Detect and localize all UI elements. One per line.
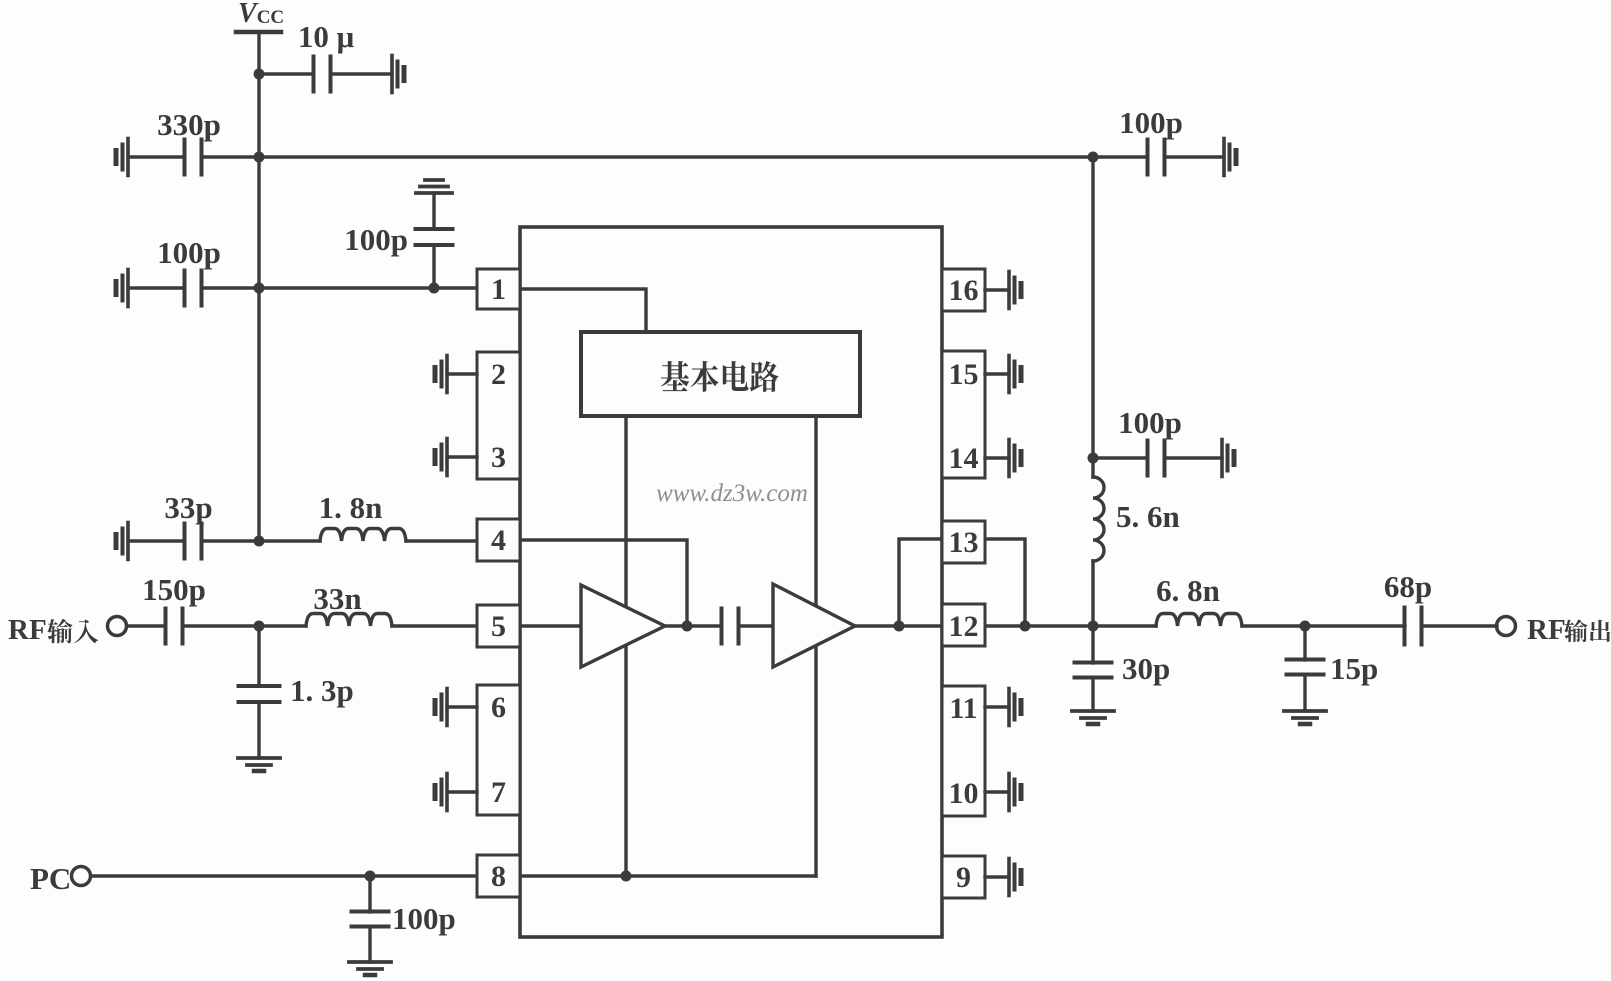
svg-text:8: 8 xyxy=(491,860,506,893)
svg-text:10 μ: 10 μ xyxy=(298,19,355,54)
svg-text:1: 1 xyxy=(491,273,506,306)
pin 4 box xyxy=(477,519,520,561)
svg-text:9: 9 xyxy=(956,861,971,894)
wire internal bus A xyxy=(624,416,627,876)
inductor L3 5.6n xyxy=(1093,477,1104,561)
wire ground to C3 xyxy=(128,286,183,289)
pin 13 box xyxy=(942,521,985,563)
power VCC terminal bar xyxy=(236,30,281,35)
svg-text:16: 16 xyxy=(949,274,979,307)
svg-text:1. 8n: 1. 8n xyxy=(319,490,383,525)
node 100p-VCC junction xyxy=(254,283,265,294)
wire C11 to ground xyxy=(1091,678,1094,711)
node pin13 strap junction xyxy=(1020,621,1031,632)
wire PC to pin 8 xyxy=(91,874,477,877)
svg-text:12: 12 xyxy=(949,610,979,643)
svg-text:15p: 15p xyxy=(1330,651,1378,686)
pin 9 box xyxy=(942,856,985,898)
svg-text:7: 7 xyxy=(491,776,506,809)
svg-text:100p: 100p xyxy=(1119,105,1183,140)
wire A1 to C9 xyxy=(665,624,721,627)
wire pin 4 internal xyxy=(520,540,687,626)
wire L1 to pin 4 xyxy=(406,539,477,542)
pin 8 box xyxy=(477,855,520,897)
capacitor C12 68p plates xyxy=(1403,608,1407,645)
ground at pin 7 xyxy=(447,790,477,793)
node 330p-VCC junction xyxy=(254,152,265,163)
node 100p-5.6n junction xyxy=(1088,453,1099,464)
ground at pin 14 xyxy=(985,456,1009,459)
wire terminal to C6 xyxy=(127,624,165,627)
wire pin 12 output xyxy=(985,624,1156,627)
terminal PC circle xyxy=(72,867,91,886)
capacitor C8 100p plates xyxy=(352,910,389,914)
svg-text:2: 2 xyxy=(491,358,506,391)
capacitor C14 100p plates xyxy=(1146,140,1150,175)
svg-text:6: 6 xyxy=(491,691,506,724)
wire pin 13 strap xyxy=(985,539,1025,626)
svg-text:RF: RF xyxy=(1527,614,1566,646)
node top net right junction xyxy=(1088,152,1099,163)
wire VCC vertical rail xyxy=(257,32,260,541)
svg-text:100p: 100p xyxy=(344,222,408,257)
ground at pin 9 xyxy=(985,875,1009,878)
node pin8 bus junction xyxy=(621,871,632,882)
svg-text:100p: 100p xyxy=(1118,405,1182,440)
capacitor C4 100p plates xyxy=(416,227,453,231)
svg-text:150p: 150p xyxy=(142,572,206,607)
wire pin 13 internal xyxy=(899,539,942,626)
ground at C1 xyxy=(390,56,394,93)
wire C8 to ground xyxy=(368,927,371,962)
ground at C10 xyxy=(1220,440,1224,477)
ground at pin 15 xyxy=(985,372,1009,375)
svg-text:3: 3 xyxy=(491,441,506,474)
wire L3 to output net xyxy=(1091,561,1094,626)
ground at pin 3 xyxy=(447,455,477,458)
svg-text:5. 6n: 5. 6n xyxy=(1116,499,1180,534)
svg-text:14: 14 xyxy=(949,442,979,475)
node pin1 branch junction xyxy=(429,283,440,294)
label 基本电路 text xyxy=(661,361,689,391)
ground at C14 xyxy=(1222,139,1226,176)
ground below C11 xyxy=(1072,709,1114,713)
ground at pin 16 xyxy=(985,288,1009,291)
wire L2 to pin 5 xyxy=(392,624,477,627)
pin 12 box xyxy=(942,604,985,646)
wire A2 to pin 12 xyxy=(855,624,942,627)
pin 15-14 box xyxy=(942,351,985,478)
wire C3 to pin 1 xyxy=(203,286,477,289)
wire C2 long top net xyxy=(203,155,1146,158)
ground at pin 6 xyxy=(447,705,477,708)
wire junction to C11 xyxy=(1091,626,1094,663)
pin 11-10 box xyxy=(942,686,985,816)
ground below C13 xyxy=(1284,709,1326,713)
terminal RF output circle xyxy=(1497,617,1516,636)
inductor L1 1.8n xyxy=(320,529,406,542)
capacitor C5 33p plates xyxy=(183,524,187,559)
capacitor C10 100p plates xyxy=(1146,441,1150,476)
node output-15p junction xyxy=(1300,621,1311,632)
wire C9 to A2 xyxy=(740,624,773,627)
capacitor C9 coupling plates xyxy=(720,609,724,644)
svg-text:4: 4 xyxy=(491,524,506,557)
amplifier A1 xyxy=(581,585,665,667)
ground at C2 330p xyxy=(126,139,130,176)
svg-text:13: 13 xyxy=(949,526,979,559)
node output-5.6n junction xyxy=(1088,621,1099,632)
wire C5 to L1 xyxy=(203,539,320,542)
svg-text:5: 5 xyxy=(491,610,506,643)
wire C10 to ground xyxy=(1165,456,1222,459)
block 基本电路 box xyxy=(581,332,860,416)
pin 6-7 box xyxy=(477,685,520,815)
ground at C3 100p xyxy=(126,270,130,307)
wire C1 to ground xyxy=(331,72,392,75)
ground at C5 33p xyxy=(126,523,130,560)
wire top net down xyxy=(1091,157,1094,477)
inductor L4 6.8n xyxy=(1156,614,1242,627)
svg-text:PC: PC xyxy=(30,861,71,896)
node 33p-VCC junction xyxy=(254,536,265,547)
capacitor C13 15p plates xyxy=(1287,658,1324,662)
svg-text:11: 11 xyxy=(949,692,977,725)
node RF-1.3p junction xyxy=(254,621,265,632)
ground below C7 xyxy=(238,756,280,760)
svg-text:1. 3p: 1. 3p xyxy=(290,673,354,708)
svg-text:100p: 100p xyxy=(157,235,221,270)
svg-text:10: 10 xyxy=(949,777,979,810)
capacitor C1 10u plates xyxy=(312,57,316,92)
svg-text:www.dz3w.com: www.dz3w.com xyxy=(656,480,808,507)
svg-text:6. 8n: 6. 8n xyxy=(1156,573,1220,608)
inductor L2 33n xyxy=(306,614,392,627)
pin 1 box xyxy=(477,269,520,309)
wire junction to C8 xyxy=(368,876,371,912)
ground at pin 10 xyxy=(985,790,1009,793)
IC U1 body xyxy=(520,227,942,937)
wire to C1 xyxy=(259,72,313,75)
amplifier A2 xyxy=(773,584,855,667)
svg-text:30p: 30p xyxy=(1122,651,1170,686)
capacitor C7 1.3p plates xyxy=(239,684,280,688)
pin 16 box xyxy=(942,269,985,311)
wire C7 to ground xyxy=(257,702,260,758)
svg-text:33n: 33n xyxy=(313,581,361,616)
wire ground to C5 xyxy=(128,539,183,542)
wire C4 to pin1 net xyxy=(432,245,435,288)
node VCC-10u junction xyxy=(254,69,265,80)
wire pin 5 internal xyxy=(520,624,581,627)
capacitor C6 150p plates xyxy=(164,609,168,644)
terminal RF input circle xyxy=(108,617,127,636)
wire junction to C7 xyxy=(257,626,260,686)
wire ground to C2 xyxy=(128,155,183,158)
pin 5 box xyxy=(477,605,520,647)
wire junction to C13 xyxy=(1303,626,1306,660)
capacitor C11 30p plates xyxy=(1075,661,1112,665)
wire C14 to ground xyxy=(1165,155,1224,158)
svg-text:68p: 68p xyxy=(1384,569,1432,604)
ground above C4 xyxy=(425,178,443,182)
svg-text:330p: 330p xyxy=(157,107,221,142)
svg-text:15: 15 xyxy=(949,358,979,391)
wire junction to C10 xyxy=(1093,456,1147,459)
capacitor C3 100p plates xyxy=(183,271,187,306)
node A1 output junction xyxy=(682,621,693,632)
svg-text:RF: RF xyxy=(8,614,47,646)
wire C6 to L2 xyxy=(184,624,306,627)
wire pin 1 internal xyxy=(520,289,646,332)
node A2 output junction xyxy=(894,621,905,632)
node PC-100p junction xyxy=(365,871,376,882)
wire C12 to terminal xyxy=(1422,624,1497,627)
ground at pin 11 xyxy=(985,705,1009,708)
ground at pin 2 xyxy=(447,372,477,375)
wire C13 to ground xyxy=(1303,675,1306,711)
svg-text:100p: 100p xyxy=(392,901,456,936)
wire L4 to C12 xyxy=(1242,624,1405,627)
capacitor C2 330p plates xyxy=(183,140,187,175)
ground below C8 xyxy=(349,960,391,964)
pin 2-3 box xyxy=(477,352,520,479)
wire ground to C4 xyxy=(432,193,435,229)
wire internal bus B xyxy=(814,416,817,876)
svg-text:33p: 33p xyxy=(164,490,212,525)
wire pin 8 internal xyxy=(520,874,816,877)
